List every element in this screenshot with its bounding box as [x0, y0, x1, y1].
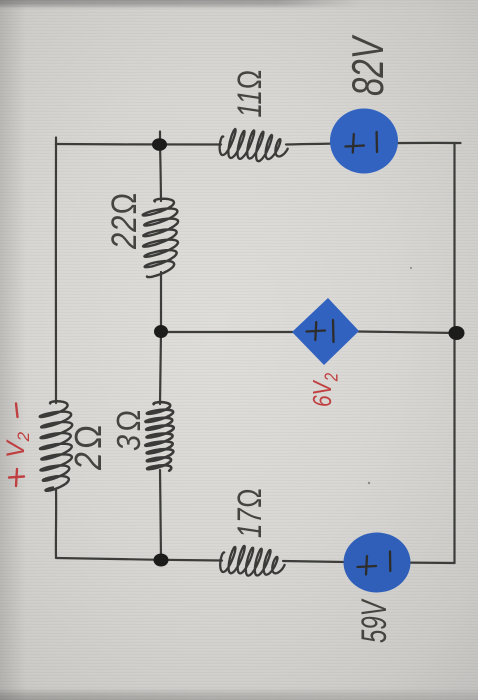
red plus of V2 [9, 469, 24, 486]
svg-text:6V2: 6V2 [308, 372, 342, 407]
resistor R2 22ohm [143, 199, 178, 277]
resistor R1 11ohm [220, 129, 288, 161]
red minus of V2 [16, 404, 18, 418]
svg-text:82V: 82V [344, 34, 393, 96]
svg-text:11Ω: 11Ω [232, 69, 269, 117]
junction node dot middle-right [449, 326, 465, 340]
wire left vertical lower [55, 489, 57, 558]
svg-text:3Ω: 3Ω [110, 407, 147, 451]
wire middle vertical mid [160, 272, 161, 404]
wire top right segment [286, 143, 461, 145]
dependent source diamond [292, 298, 359, 365]
wire top left segment [56, 143, 221, 146]
junction node dot top [152, 138, 167, 151]
resistor R3 3ohm [145, 402, 174, 471]
wire top-left corner stub [55, 138, 57, 146]
wire middle horizontal left [161, 331, 293, 333]
svg-text:17Ω: 17Ω [232, 488, 269, 538]
svg-text:V2: V2 [2, 431, 33, 458]
diamond plus sign [307, 322, 326, 340]
82V minus sign [375, 132, 378, 152]
svg-text:2Ω: 2Ω [68, 422, 110, 471]
speck [368, 482, 370, 484]
resistor R4 17ohm [220, 546, 284, 576]
speck [410, 267, 412, 269]
wire middle vertical upper [160, 145, 161, 201]
wire middle vertical lower [160, 470, 161, 560]
svg-text:22Ω: 22Ω [104, 191, 143, 249]
59V minus sign [389, 552, 392, 572]
voltage source 59V circle [344, 533, 411, 593]
59V plus sign [358, 556, 377, 575]
svg-text:59V: 59V [356, 598, 394, 643]
wire middle horizontal right [358, 332, 456, 334]
wire bottom right segment [283, 561, 455, 563]
junction node dot middle-left [154, 325, 168, 338]
diamond minus sign [332, 320, 335, 342]
node stub above top wire [159, 132, 161, 147]
voltage source 82V circle [330, 109, 398, 174]
wire bottom left segment [56, 558, 222, 561]
wire left vertical upper [55, 144, 58, 403]
junction node dot bottom [154, 554, 169, 567]
wire right vertical [453, 143, 455, 563]
82V plus sign [346, 134, 365, 153]
resistor R5 2ohm [40, 401, 72, 491]
